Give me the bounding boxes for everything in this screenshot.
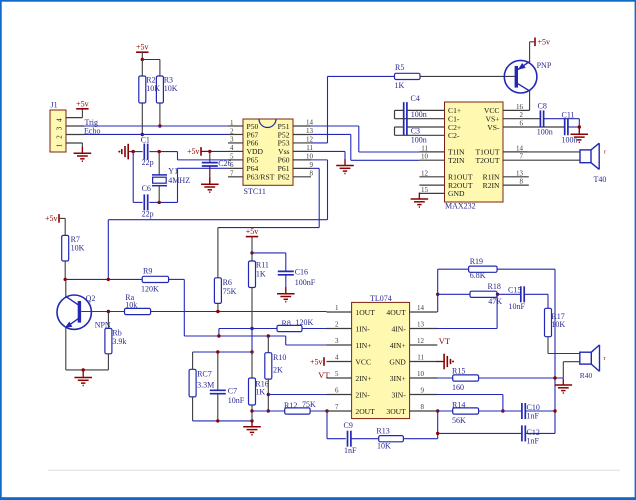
svg-text:P62: P62: [278, 173, 290, 182]
svg-text:10k: 10k: [125, 300, 137, 309]
svg-text:VT: VT: [439, 336, 451, 346]
svg-text:8: 8: [520, 178, 524, 186]
svg-text:1K: 1K: [395, 81, 405, 90]
svg-text:R6: R6: [223, 278, 232, 287]
svg-text:+5v: +5v: [187, 147, 200, 156]
svg-text:3.9k: 3.9k: [112, 337, 126, 346]
svg-text:C7: C7: [228, 387, 237, 396]
svg-text:3: 3: [230, 136, 234, 144]
svg-text:R10: R10: [273, 353, 286, 362]
svg-text:C16: C16: [295, 268, 308, 277]
svg-text:2IN+: 2IN+: [355, 374, 371, 383]
svg-text:4: 4: [230, 144, 234, 152]
svg-text:47K: 47K: [488, 297, 502, 306]
svg-text:R11: R11: [256, 261, 269, 270]
svg-text:10K: 10K: [71, 243, 85, 252]
svg-text:4IN+: 4IN+: [390, 341, 406, 350]
svg-text:1K: 1K: [255, 388, 265, 397]
svg-text:4: 4: [56, 118, 64, 122]
svg-text:11: 11: [417, 354, 424, 362]
svg-text:R19: R19: [470, 257, 483, 266]
svg-text:2OUT: 2OUT: [355, 407, 375, 416]
svg-text:56K: 56K: [452, 416, 466, 425]
svg-text:160: 160: [452, 383, 464, 392]
svg-text:12: 12: [306, 135, 314, 143]
svg-text:1: 1: [56, 143, 64, 147]
svg-text:10: 10: [417, 370, 425, 378]
svg-text:+5v: +5v: [246, 227, 259, 236]
svg-text:7: 7: [335, 403, 339, 411]
svg-text:C9: C9: [344, 421, 353, 430]
svg-text:2K: 2K: [273, 366, 283, 375]
svg-text:+5v: +5v: [45, 214, 58, 223]
svg-text:r: r: [604, 356, 606, 362]
svg-text:Y1: Y1: [168, 167, 178, 176]
svg-text:R14: R14: [452, 400, 465, 409]
svg-text:5: 5: [335, 370, 339, 378]
svg-text:100nF: 100nF: [295, 278, 316, 287]
svg-text:2IN-: 2IN-: [355, 390, 370, 399]
svg-text:T2IN: T2IN: [448, 156, 465, 165]
svg-text:Q2: Q2: [86, 294, 96, 303]
svg-text:R12: R12: [284, 401, 297, 410]
svg-text:13: 13: [516, 169, 524, 177]
svg-text:R18: R18: [488, 282, 501, 291]
svg-text:R8: R8: [282, 319, 291, 328]
svg-text:120K: 120K: [141, 284, 159, 293]
svg-text:75K: 75K: [302, 400, 316, 409]
svg-text:8: 8: [421, 403, 425, 411]
svg-text:4IN-: 4IN-: [391, 324, 406, 333]
svg-text:22p: 22p: [142, 158, 154, 167]
svg-text:C15: C15: [508, 285, 521, 294]
svg-text:9: 9: [310, 161, 314, 169]
svg-text:6: 6: [520, 120, 524, 128]
svg-text:7: 7: [230, 170, 234, 178]
svg-text:6.8K: 6.8K: [470, 271, 486, 280]
svg-text:C2-: C2-: [448, 131, 460, 140]
svg-text:C8: C8: [538, 102, 547, 111]
svg-text:75K: 75K: [223, 287, 237, 296]
svg-text:4OUT: 4OUT: [386, 308, 406, 317]
svg-text:RC7: RC7: [197, 370, 212, 379]
svg-text:C1: C1: [141, 136, 150, 145]
svg-text:10K: 10K: [377, 441, 391, 450]
svg-text:T2OUT: T2OUT: [475, 156, 499, 165]
svg-text:9: 9: [421, 387, 425, 395]
svg-text:2: 2: [520, 111, 524, 119]
svg-text:10nF: 10nF: [228, 396, 245, 405]
svg-text:STC11: STC11: [244, 187, 266, 196]
svg-text:R2IN: R2IN: [483, 181, 500, 190]
svg-text:15: 15: [421, 186, 429, 194]
svg-text:1IN+: 1IN+: [355, 341, 371, 350]
svg-text:16: 16: [516, 103, 524, 111]
svg-text:C6: C6: [142, 184, 151, 193]
svg-text:R40: R40: [580, 371, 593, 380]
svg-text:10: 10: [421, 153, 429, 161]
svg-text:14: 14: [306, 119, 314, 127]
svg-text:11: 11: [421, 144, 428, 152]
svg-text:10: 10: [306, 152, 314, 160]
svg-text:12: 12: [417, 337, 425, 345]
svg-text:1: 1: [230, 119, 234, 127]
svg-text:GND: GND: [448, 189, 465, 198]
svg-text:3IN+: 3IN+: [390, 374, 406, 383]
svg-text:1nF: 1nF: [527, 436, 540, 445]
svg-text:+5v: +5v: [76, 99, 89, 108]
svg-text:13: 13: [306, 127, 314, 135]
svg-text:J1: J1: [51, 101, 58, 110]
svg-text:6: 6: [335, 387, 339, 395]
svg-text:100n: 100n: [562, 135, 578, 144]
svg-text:+5v: +5v: [310, 357, 323, 366]
svg-text:PNP: PNP: [537, 61, 552, 70]
svg-text:3.3M: 3.3M: [197, 380, 214, 389]
svg-text:R13: R13: [376, 427, 389, 436]
svg-text:11: 11: [306, 144, 313, 152]
svg-text:1IN-: 1IN-: [355, 324, 370, 333]
svg-text:C11: C11: [562, 111, 575, 120]
svg-text:+5v: +5v: [538, 38, 551, 47]
svg-text:VS-: VS-: [487, 123, 500, 132]
svg-text:TL074: TL074: [370, 294, 392, 303]
svg-text:+5v: +5v: [136, 43, 149, 52]
svg-text:1nF: 1nF: [527, 411, 540, 420]
svg-text:MAX232: MAX232: [445, 202, 476, 211]
svg-text:R9: R9: [143, 266, 152, 275]
svg-text:1nF: 1nF: [344, 446, 357, 455]
svg-text:R15: R15: [452, 366, 465, 375]
svg-text:2: 2: [230, 127, 234, 135]
svg-text:10K: 10K: [551, 320, 565, 329]
svg-text:13: 13: [417, 321, 425, 329]
svg-text:VCC: VCC: [355, 357, 371, 366]
svg-text:4: 4: [335, 354, 339, 362]
svg-text:3: 3: [56, 126, 64, 130]
svg-text:10K: 10K: [146, 84, 160, 93]
svg-text:14: 14: [516, 144, 524, 152]
svg-text:1K: 1K: [256, 270, 266, 279]
svg-text:4MHZ: 4MHZ: [168, 176, 190, 185]
svg-text:14: 14: [417, 304, 425, 312]
svg-text:1OUT: 1OUT: [355, 308, 375, 317]
svg-text:7: 7: [520, 153, 524, 161]
svg-text:GND: GND: [389, 357, 406, 366]
svg-text:12: 12: [421, 169, 429, 177]
svg-text:120K: 120K: [296, 318, 314, 327]
svg-text:3IN-: 3IN-: [391, 390, 406, 399]
svg-text:100n: 100n: [537, 127, 553, 136]
svg-text:R5: R5: [395, 63, 404, 72]
svg-text:2: 2: [56, 135, 64, 139]
svg-text:P63/RST: P63/RST: [247, 173, 275, 182]
svg-text:10nF: 10nF: [509, 302, 526, 311]
svg-text:C4: C4: [411, 94, 420, 103]
svg-text:1: 1: [335, 304, 339, 312]
svg-text:T40: T40: [594, 175, 607, 184]
svg-text:100n: 100n: [411, 135, 427, 144]
svg-text:10K: 10K: [164, 84, 178, 93]
svg-text:3OUT: 3OUT: [386, 407, 406, 416]
svg-text:C3: C3: [411, 126, 420, 135]
svg-text:3: 3: [335, 337, 339, 345]
svg-text:2: 2: [335, 321, 339, 329]
svg-text:r: r: [604, 150, 606, 156]
svg-text:8: 8: [310, 169, 314, 177]
svg-text:VT: VT: [318, 370, 330, 380]
svg-text:22p: 22p: [142, 210, 154, 219]
svg-text:100n: 100n: [411, 110, 427, 119]
